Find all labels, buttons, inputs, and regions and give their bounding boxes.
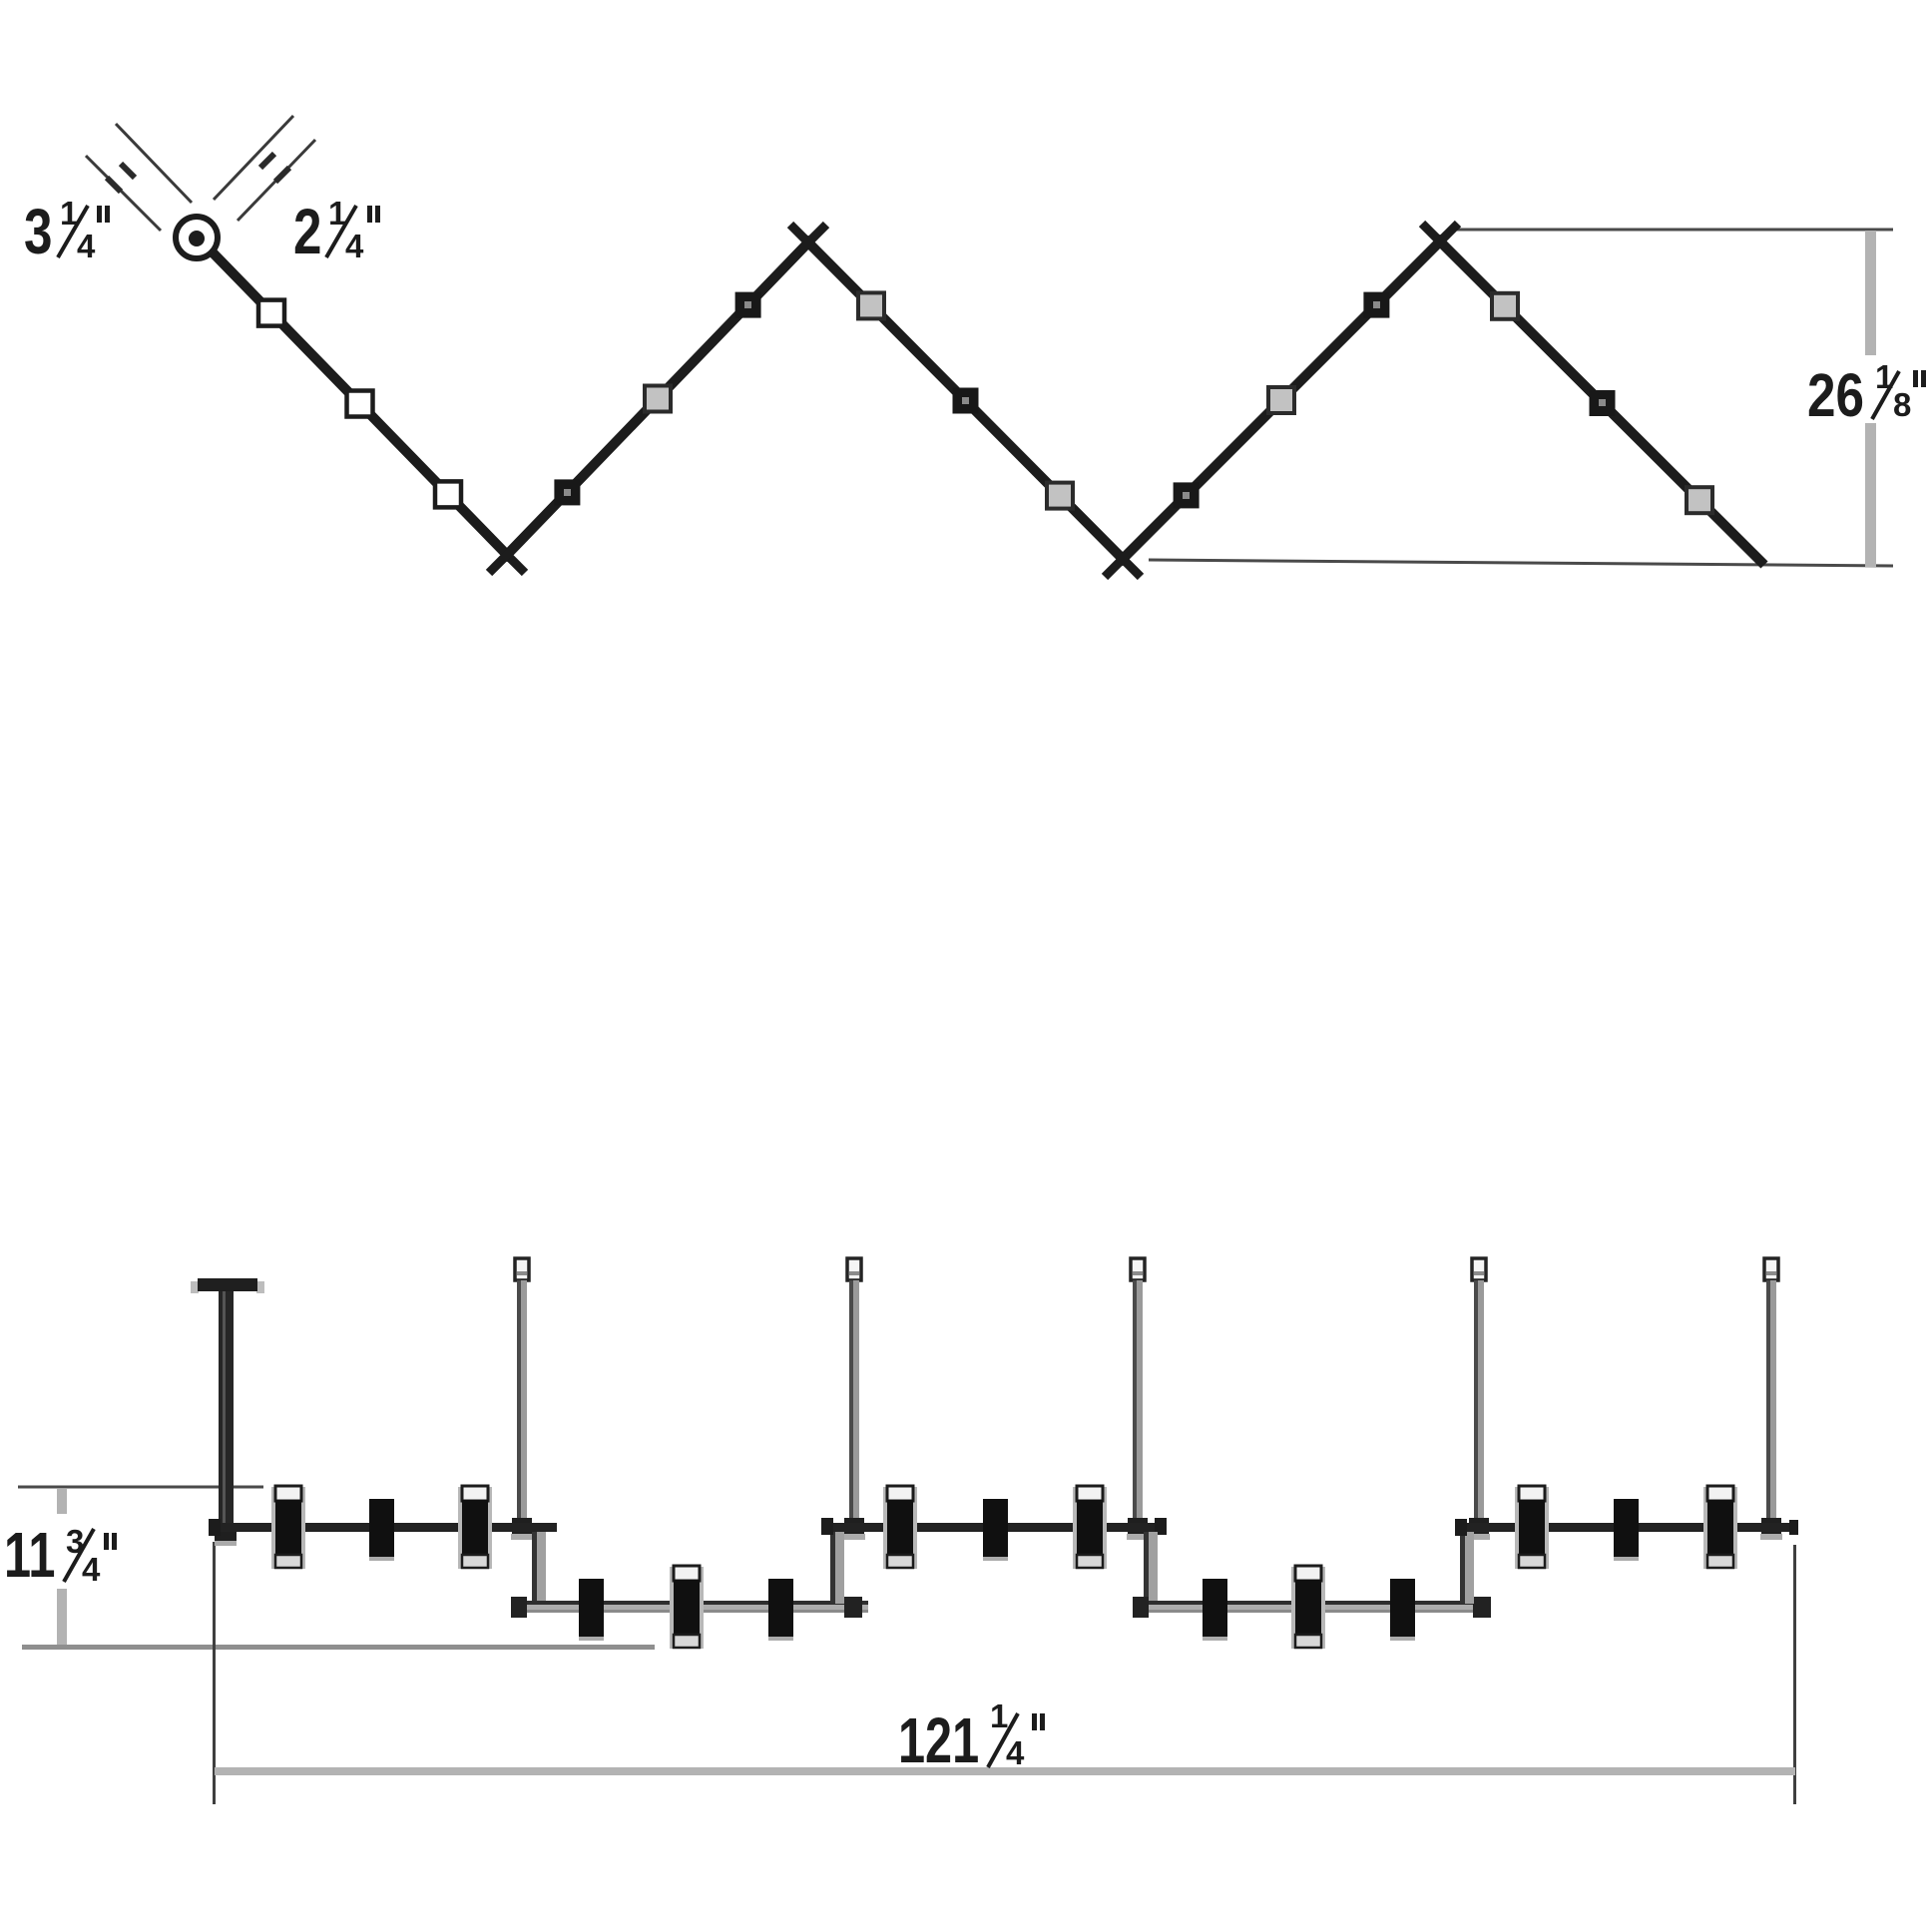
lower bar D xyxy=(1133,1597,1491,1618)
lamp L5 (capped cylinder pair) xyxy=(670,1566,704,1649)
canopy stem xyxy=(219,1291,234,1532)
suspension wire 1 xyxy=(511,1258,533,1540)
step connector 4 (up) xyxy=(1460,1524,1474,1604)
dimension extension line B2 (2 1/4" right) xyxy=(238,140,315,221)
connector X at valley 2 xyxy=(1105,541,1141,577)
height dim top line xyxy=(18,1486,263,1489)
dimension tick B2 xyxy=(275,168,289,182)
zigzag rod (plan) xyxy=(213,241,1764,565)
svg-text:4: 4 xyxy=(1006,1734,1025,1771)
step connector 1 (down) xyxy=(532,1532,546,1604)
svg-text:11: 11 xyxy=(4,1521,55,1592)
start fitting (plan) xyxy=(176,217,218,258)
height dim gray bar upper segment xyxy=(57,1489,67,1514)
dimension extension line A1 (3 1/4" left) xyxy=(116,124,192,203)
upper bar A xyxy=(209,1519,557,1536)
lamp L14 (plain cylinder) xyxy=(1614,1499,1639,1561)
node squares segment 3 (light,dark,light) xyxy=(858,292,1073,508)
lamp L15 (capped cylinder pair) xyxy=(1703,1486,1737,1569)
svg-text:26: 26 xyxy=(1807,361,1864,429)
dimension extension line A2 (3 1/4" left) xyxy=(86,156,161,231)
label 11 3/4 inch xyxy=(4,1521,117,1592)
depth dimension gray bar lower segment xyxy=(1865,423,1876,567)
stem mount block xyxy=(215,1531,237,1546)
svg-text:121: 121 xyxy=(898,1706,979,1777)
depth dimension gray bar upper segment xyxy=(1865,231,1876,355)
suspension wire 5 xyxy=(1760,1258,1782,1540)
dimension tick A1 xyxy=(121,164,135,178)
upper bar E xyxy=(1455,1519,1798,1536)
connector X at valley 1 xyxy=(489,537,525,573)
dimension extension line B1 (2 1/4" right) xyxy=(214,116,293,200)
connector X at peak 2 xyxy=(1422,224,1458,259)
label 3 1/4 inch xyxy=(24,195,110,267)
height dim bottom gray line xyxy=(22,1645,655,1650)
svg-text:4: 4 xyxy=(77,228,96,264)
width dim right extension line xyxy=(1793,1545,1796,1804)
svg-text:4: 4 xyxy=(82,1551,101,1588)
lamp L4 (plain cylinder) xyxy=(579,1579,604,1641)
svg-text:8: 8 xyxy=(1893,386,1911,423)
suspension wire 2 xyxy=(843,1258,865,1540)
lamp L10 (plain cylinder) xyxy=(1203,1579,1227,1641)
label 2 1/4 inch xyxy=(293,195,380,267)
width dim left extension line xyxy=(213,1542,216,1804)
width dim gray bar xyxy=(215,1767,1795,1775)
bottom reference line from valley 2 xyxy=(1149,560,1893,566)
lamp L7 (capped cylinder pair) xyxy=(883,1486,917,1569)
lamp L11 (capped cylinder pair) xyxy=(1291,1566,1325,1649)
dimension tick B1 xyxy=(260,154,274,168)
svg-text:2: 2 xyxy=(293,198,321,268)
svg-text:4: 4 xyxy=(345,228,364,264)
lamp L12 (plain cylinder) xyxy=(1390,1579,1415,1641)
node squares segment 4 (dark,light,dark) xyxy=(1174,292,1390,509)
step connector 3 (down) xyxy=(1144,1532,1158,1604)
node squares segment 1 (white) xyxy=(258,300,284,326)
top reference line from peak 2 xyxy=(1448,229,1893,232)
step connector 2 (up) xyxy=(830,1524,844,1604)
suspension wire 3 xyxy=(1127,1258,1149,1540)
ceiling canopy xyxy=(191,1278,264,1293)
label 121 1/4 inch xyxy=(898,1697,1045,1777)
lamp L3 (capped cylinder pair) xyxy=(458,1486,492,1569)
node squares segment 2 (dark,light,dark) xyxy=(554,292,760,506)
dimension tick A2 xyxy=(107,178,121,192)
lamp L2 (plain cylinder) xyxy=(369,1499,394,1561)
upper bar C xyxy=(821,1518,1167,1535)
lamp L6 (plain cylinder) xyxy=(768,1579,793,1641)
lamp L13 (capped cylinder pair) xyxy=(1515,1486,1549,1569)
svg-text:1: 1 xyxy=(990,1697,1008,1734)
svg-text:3: 3 xyxy=(24,198,52,268)
node squares segment 5 (light,dark,light) xyxy=(1492,293,1712,513)
label 26 1/8 inch xyxy=(1807,358,1926,429)
lamp L1 (capped cylinder pair) xyxy=(271,1486,305,1569)
height dim gray bar lower segment xyxy=(57,1589,67,1647)
lower bar B xyxy=(511,1597,868,1618)
suspension wire 4 xyxy=(1468,1258,1490,1540)
connector X at peak 1 xyxy=(790,225,826,260)
lamp L9 (capped cylinder pair) xyxy=(1073,1486,1107,1569)
lamp L8 (plain cylinder) xyxy=(983,1499,1008,1561)
